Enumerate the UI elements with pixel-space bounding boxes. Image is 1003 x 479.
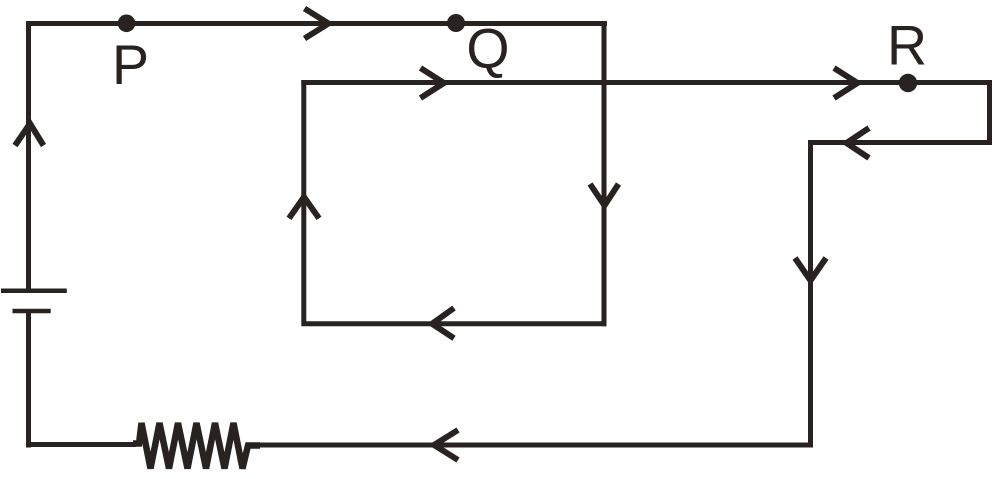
- resistor (zig-zag element on bottom wire): [133, 423, 260, 469]
- battery negative plate (short line): [13, 309, 51, 314]
- arrow (current direction, right) on long horizontal wire, before node R: [834, 68, 858, 98]
- arrow (current direction, left) on inner-rectangle bottom side: [432, 308, 454, 338]
- arrow (current direction, up) on left vertical wire: [15, 124, 44, 146]
- arrow (current direction, up) on inner-rectangle left side: [289, 197, 319, 218]
- wire: bottom horizontal wire from lower-right vertical to resistor: [251, 443, 814, 448]
- wire: left vertical from battery positive plate up to top-left corner: [29, 24, 608, 289]
- svg-text:Q: Q: [466, 17, 509, 79]
- svg-text:R: R: [887, 15, 927, 77]
- arrow (current direction, down) on inner-rectangle right side: [590, 184, 619, 206]
- arrow (current direction, left) on bottom wire: [434, 430, 458, 460]
- arrow (current direction, right) on top wire: [305, 9, 329, 39]
- arrow (current direction, left) on middle-right horizontal wire: [847, 128, 870, 158]
- wire: inner rectangle left side and bottom side: [304, 81, 607, 324]
- wire: vertical drop from top wire through inner loop (right side of inner rectangle): [602, 24, 607, 327]
- battery positive plate (long line): [1, 288, 67, 293]
- wire: left vertical from bottom wire up to battery negative plate: [26, 312, 31, 448]
- wire: long horizontal wire from inner-rectangle top-left corner to far right edge: [301, 80, 992, 85]
- node Q (junction dot on top wire): [447, 14, 465, 32]
- wire: bottom-left wire from resistor to left vertical: [29, 442, 137, 447]
- node P (junction dot on top wire): [118, 14, 136, 32]
- arrow (current direction, right) on long horizontal wire, inside inner rectangle: [421, 68, 445, 98]
- wire: right edge down, back left, then down to bottom wire: [811, 83, 990, 446]
- svg-text:P: P: [112, 34, 149, 96]
- arrow (current direction, down) on lower-right vertical wire: [795, 258, 826, 281]
- node R (junction dot on long horizontal wire): [899, 74, 917, 92]
